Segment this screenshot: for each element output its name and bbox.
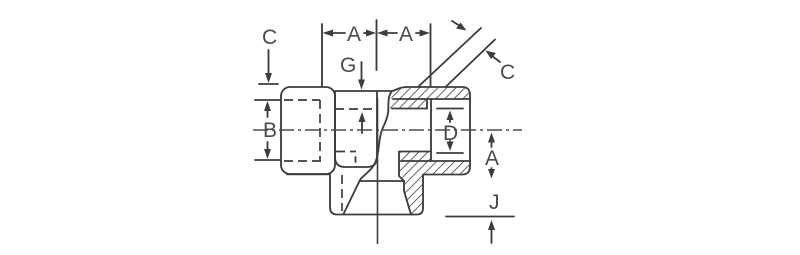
arrow C left <box>268 50 270 77</box>
J line <box>446 216 514 218</box>
extension line center <box>376 20 378 70</box>
squiggle break line <box>344 91 393 214</box>
body top face <box>335 90 392 92</box>
J arrow <box>491 226 493 243</box>
D bars <box>437 108 463 110</box>
hatch bottom region <box>399 152 470 215</box>
center socket U <box>335 91 377 167</box>
right port bore <box>430 99 432 152</box>
shoulder line <box>361 180 405 182</box>
tick for C left <box>259 83 278 85</box>
left port body <box>281 87 335 174</box>
arrow C right <box>492 56 500 62</box>
arrow G <box>361 62 363 83</box>
svg-text:G: G <box>340 54 356 77</box>
up arrow at thread line <box>361 118 363 133</box>
extension line left (thread plane) <box>321 24 323 86</box>
horizontal centerline <box>253 129 522 131</box>
hidden thread face vertical <box>319 100 321 161</box>
svg-text:A: A <box>347 23 361 46</box>
svg-text:C: C <box>500 61 515 84</box>
svg-text:A: A <box>485 147 499 170</box>
hump to right port face <box>392 87 406 91</box>
svg-text:J: J <box>489 191 500 214</box>
center vertical line lower <box>377 98 379 244</box>
small arrow top <box>452 21 460 26</box>
left port bottom edge continuation <box>287 173 330 175</box>
chamfer diagonal 2 <box>446 40 496 88</box>
B ticks <box>255 99 280 101</box>
D arrows <box>449 116 451 122</box>
hidden line y151 <box>336 151 356 153</box>
hidden branch bore <box>341 175 343 211</box>
svg-text:A: A <box>399 23 413 46</box>
extension line right <box>430 24 432 86</box>
hidden bore left port bottom <box>284 160 321 162</box>
right port top face and right edge <box>330 87 470 215</box>
B arrows <box>267 107 269 117</box>
hidden bore left port top <box>284 99 320 101</box>
hatch top band <box>390 87 470 109</box>
chamfer diagonal 1 <box>419 28 481 86</box>
hidden thread line in socket <box>335 108 377 110</box>
svg-text:C: C <box>262 26 277 49</box>
